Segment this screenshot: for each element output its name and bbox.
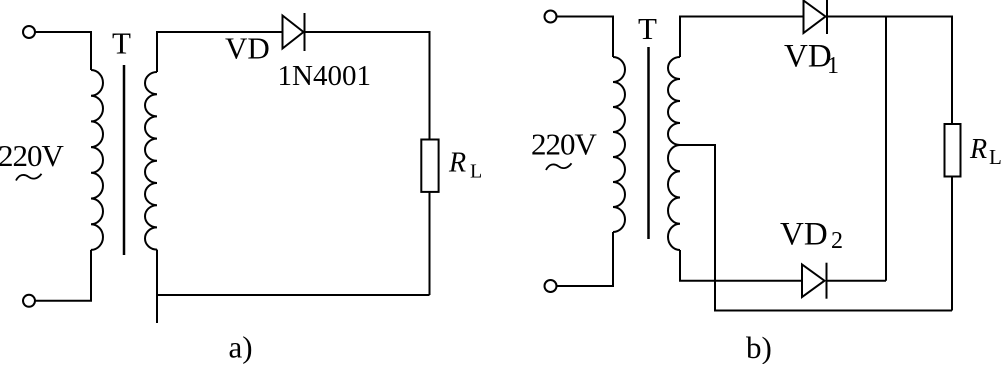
wire: resistor bottom down (a): [429, 192, 431, 295]
wire: top terminal to primary top (a): [35, 32, 92, 70]
svg-text:2: 2: [831, 228, 843, 254]
svg-text:1N4001: 1N4001: [278, 60, 371, 92]
transformer core (b): [647, 47, 650, 239]
svg-text:220V: 220V: [0, 138, 65, 173]
svg-text:L: L: [470, 161, 482, 183]
svg-text:a): a): [229, 330, 253, 365]
wire: top terminal to primary top (b): [556, 17, 613, 58]
wire: VD1 cathode to resistor top (b): [827, 17, 952, 125]
diode VD: [283, 16, 304, 49]
wire: bottom return to centre tap (b): [680, 145, 952, 311]
svg-text:R: R: [969, 134, 987, 165]
svg-text:220V: 220V: [531, 127, 598, 162]
svg-text:VD: VD: [780, 217, 828, 253]
wire: VD2 cathode to junction (b): [827, 280, 887, 282]
svg-text:VD: VD: [225, 30, 270, 65]
wire: secondary top to diode anode (a): [157, 32, 283, 72]
transformer secondary winding lower half (b): [668, 145, 680, 250]
diode VD cathode bar: [304, 13, 306, 51]
svg-text:1: 1: [827, 53, 839, 79]
wire: bottom return (a): [157, 294, 430, 296]
AC tilde symbol (b): [546, 163, 572, 170]
wire: resistor bottom down (b): [951, 177, 953, 311]
wire: secondary top to VD1 anode (b): [680, 17, 804, 58]
diode VD1 cathode bar: [826, 0, 828, 34]
resistor RL (b): [945, 124, 961, 177]
svg-text:L: L: [989, 145, 1002, 169]
svg-text:b): b): [746, 330, 772, 364]
resistor RL (a): [421, 140, 438, 192]
wire: cathode junction down to VD2 cathode (b): [885, 17, 887, 281]
svg-text:R: R: [448, 147, 466, 178]
wire: secondary bottom to VD2 anode (b): [680, 250, 802, 281]
transformer secondary winding upper half (b): [668, 57, 680, 145]
terminal (top-left, circuit b): [545, 11, 557, 23]
transformer core (a): [123, 65, 126, 255]
wire: diode cathode to resistor top (a): [305, 32, 430, 140]
svg-text:T: T: [638, 11, 657, 46]
transformer T primary winding (a): [91, 70, 103, 250]
diode VD1: [804, 1, 826, 34]
wire: secondary bottom lead with tail (a): [156, 250, 158, 323]
diode VD2: [802, 265, 825, 298]
wire: primary bottom to bottom terminal (b): [556, 232, 613, 286]
transformer secondary winding (a): [145, 72, 157, 250]
terminal (top-left, circuit a): [23, 26, 35, 38]
svg-text:VD: VD: [784, 38, 832, 74]
terminal (bottom-left, circuit b): [545, 280, 557, 292]
svg-text:T: T: [112, 26, 131, 61]
wire: primary bottom to bottom terminal (a): [35, 250, 92, 301]
transformer T primary winding (b): [613, 57, 625, 232]
diode VD2 cathode bar: [826, 263, 828, 299]
AC tilde symbol (a): [16, 174, 42, 181]
terminal (bottom-left, circuit a): [23, 295, 35, 307]
